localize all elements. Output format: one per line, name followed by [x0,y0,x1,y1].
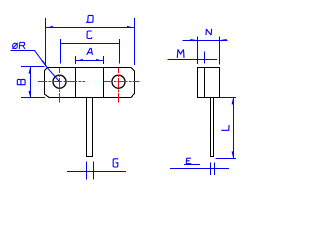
E extension left [210,163,212,176]
label C [87,31,92,39]
label N [206,29,212,35]
lead (front view) [87,98,93,157]
N arrow left [190,39,197,40]
B extension bottom [21,97,45,99]
A extension left [75,56,77,64]
body right edge line [103,67,105,98]
label B (rotated) [17,79,25,84]
B arrow bottom [29,91,31,97]
dimension L [216,98,237,159]
label E [186,158,191,164]
leader arrowhead [42,60,48,67]
label A [87,48,93,55]
dimension E [170,163,229,176]
L arrow bottom [232,151,234,158]
L arrow top [232,98,234,105]
L dim line [233,98,235,159]
G dim line [67,171,126,173]
label D [86,15,93,22]
body left edge line [75,67,77,98]
dimension N [183,37,228,65]
C dim line [61,43,120,45]
L extension top [220,97,236,99]
dimension A [76,56,104,64]
G extension right [93,161,95,179]
L extension bottom [216,158,237,160]
side view lead [211,98,214,157]
D arrow right [127,26,134,28]
B dim line [30,67,32,98]
centerline vertical right hole [118,68,120,103]
dimension D [46,18,135,65]
dimension B [21,67,45,98]
leader line to hole [11,51,60,82]
A dim line [76,60,104,62]
A arrow right [96,59,103,61]
E extension right [214,163,216,176]
N extension right [219,37,221,65]
D arrow left [46,26,53,28]
N dim line [183,40,228,42]
C extension left [60,39,62,64]
N extension left [197,37,199,64]
centerline horizontal left hole [38,81,85,83]
M dim line [168,59,218,61]
E dim line [170,168,229,170]
centerline vertical left hole [59,68,61,103]
D extension right [134,18,136,65]
M extension right [204,52,206,64]
E label shelf [184,164,200,166]
label L (rotated) [221,125,229,130]
side view internal line [204,68,206,98]
leader label O-slash R [12,42,25,49]
D extension left [45,18,47,65]
A extension right [103,56,105,64]
N arrow right [220,39,227,40]
side view body [198,68,220,98]
label G [113,159,118,167]
B arrow top [29,67,31,73]
centerline horizontal right hole [104,81,140,83]
dimension M [168,52,218,64]
mounting hole right [112,75,125,88]
dimension C [61,39,120,64]
C extension right [119,39,121,64]
G extension left [86,161,88,179]
dimension G [67,161,126,179]
label M [177,49,184,58]
B extension top [21,66,45,68]
D dim line [46,27,135,29]
A arrow left [76,59,83,61]
flange outline (front view) [45,68,135,98]
mounting hole left [53,75,66,88]
